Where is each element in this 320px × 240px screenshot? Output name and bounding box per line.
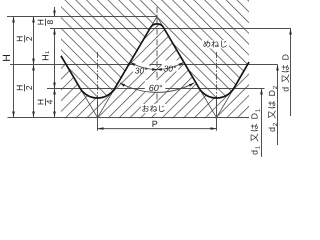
- svg-text:H: H: [1, 54, 13, 62]
- svg-text:30°: 30°: [135, 66, 148, 76]
- svg-text:30°: 30°: [164, 63, 177, 73]
- svg-text:d 又は D: d 又は D: [281, 53, 291, 92]
- svg-text:2: 2: [24, 85, 34, 90]
- svg-text:2: 2: [24, 36, 34, 41]
- svg-text:8: 8: [45, 20, 55, 25]
- svg-text:60°: 60°: [149, 83, 163, 93]
- svg-text:1: 1: [45, 51, 51, 54]
- svg-text:めねじ: めねじ: [203, 39, 228, 49]
- svg-text:4: 4: [45, 99, 55, 104]
- svg-text:P: P: [152, 119, 158, 129]
- svg-text:H: H: [41, 54, 51, 61]
- svg-text:おねじ: おねじ: [142, 105, 166, 114]
